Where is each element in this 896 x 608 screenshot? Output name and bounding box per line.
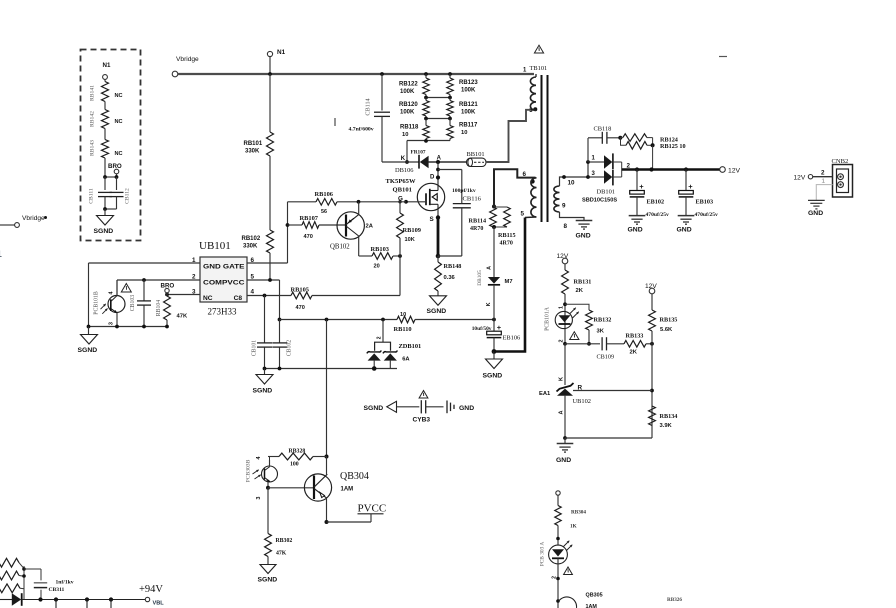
svg-text:RB326: RB326 bbox=[667, 597, 682, 603]
svg-text:330K: 330K bbox=[245, 149, 260, 155]
svg-text:CB118: CB118 bbox=[594, 126, 612, 133]
svg-text:CB112: CB112 bbox=[125, 188, 131, 204]
svg-text:RB131: RB131 bbox=[574, 279, 592, 286]
svg-text:BRO: BRO bbox=[108, 163, 122, 170]
svg-text:2K: 2K bbox=[576, 288, 584, 294]
svg-text:PCB303B: PCB303B bbox=[246, 459, 252, 482]
svg-text:CB111: CB111 bbox=[89, 188, 95, 204]
svg-text:N1: N1 bbox=[277, 49, 286, 56]
svg-text:CB103: CB103 bbox=[130, 295, 136, 312]
svg-text:K: K bbox=[559, 377, 565, 381]
svg-text:NC: NC bbox=[115, 93, 123, 99]
svg-text:6A: 6A bbox=[402, 357, 410, 363]
svg-text:+: + bbox=[639, 182, 644, 191]
svg-text:9: 9 bbox=[562, 203, 566, 210]
svg-text:3K: 3K bbox=[597, 329, 605, 335]
svg-text:330K: 330K bbox=[243, 244, 258, 250]
svg-text:CB114: CB114 bbox=[365, 98, 372, 115]
svg-text:2: 2 bbox=[552, 576, 558, 579]
svg-text:RB302: RB302 bbox=[276, 538, 293, 544]
svg-text:10K: 10K bbox=[405, 237, 415, 243]
svg-text:PCB101B: PCB101B bbox=[94, 291, 100, 315]
svg-text:QB102: QB102 bbox=[330, 244, 350, 251]
svg-text:20: 20 bbox=[374, 264, 380, 270]
svg-text:12V: 12V bbox=[794, 175, 806, 182]
svg-text:QB304: QB304 bbox=[340, 471, 369, 482]
svg-text:56: 56 bbox=[321, 209, 327, 215]
svg-text:CB109: CB109 bbox=[597, 354, 615, 361]
svg-text:1AM: 1AM bbox=[586, 604, 598, 608]
svg-text:1K: 1K bbox=[570, 524, 577, 530]
svg-text:DB105: DB105 bbox=[477, 270, 483, 286]
svg-text:SGND: SGND bbox=[427, 308, 447, 315]
svg-text:10: 10 bbox=[461, 130, 467, 136]
svg-text:C8: C8 bbox=[234, 295, 243, 302]
svg-text:TK5P65W: TK5P65W bbox=[386, 178, 416, 185]
svg-text:A: A bbox=[559, 411, 565, 415]
svg-text:1: 1 bbox=[559, 306, 565, 309]
svg-text:RB107: RB107 bbox=[300, 215, 319, 222]
svg-text:2K: 2K bbox=[630, 350, 638, 356]
svg-text:RB122: RB122 bbox=[399, 82, 418, 88]
svg-text:RB120: RB120 bbox=[399, 102, 418, 108]
svg-text:SGND: SGND bbox=[258, 577, 278, 584]
svg-text:10: 10 bbox=[402, 132, 408, 138]
svg-text:3: 3 bbox=[256, 497, 262, 500]
svg-text:273H33: 273H33 bbox=[208, 307, 237, 317]
svg-text:4R70: 4R70 bbox=[470, 226, 483, 232]
svg-text:SGND: SGND bbox=[78, 347, 98, 354]
svg-text:R: R bbox=[578, 385, 583, 392]
svg-text:Vbridge: Vbridge bbox=[22, 215, 45, 222]
svg-text:100K: 100K bbox=[400, 89, 415, 95]
svg-text:+: + bbox=[688, 182, 693, 191]
svg-text:100: 100 bbox=[290, 461, 299, 467]
svg-text:+94V: +94V bbox=[139, 584, 163, 595]
svg-text:RB141: RB141 bbox=[90, 85, 96, 101]
svg-text:CB311: CB311 bbox=[49, 587, 65, 593]
svg-text:RB114: RB114 bbox=[469, 218, 487, 225]
svg-text:470: 470 bbox=[304, 234, 313, 240]
svg-text:RB104: RB104 bbox=[156, 300, 162, 317]
svg-text:RB134: RB134 bbox=[660, 413, 678, 420]
svg-text:SGND: SGND bbox=[483, 373, 503, 380]
svg-text:PVCC: PVCC bbox=[358, 503, 387, 515]
svg-text:UB101: UB101 bbox=[199, 240, 231, 252]
svg-text:0.36: 0.36 bbox=[444, 275, 456, 281]
svg-text:A: A bbox=[487, 266, 493, 270]
svg-text:S: S bbox=[430, 216, 434, 223]
svg-text:47K: 47K bbox=[276, 551, 287, 557]
svg-text:12V: 12V bbox=[728, 168, 741, 175]
svg-text:RB101: RB101 bbox=[244, 141, 263, 147]
svg-text:EB106: EB106 bbox=[503, 335, 521, 342]
svg-text:ZDB101: ZDB101 bbox=[399, 343, 422, 350]
svg-text:COMPVCC: COMPVCC bbox=[203, 279, 245, 286]
svg-text:CB102: CB102 bbox=[287, 340, 293, 357]
svg-text:RB125 10: RB125 10 bbox=[660, 143, 686, 150]
svg-text:GND: GND bbox=[677, 227, 692, 234]
svg-text:100K: 100K bbox=[400, 110, 415, 116]
svg-text:N1: N1 bbox=[103, 62, 111, 69]
svg-text:FR107: FR107 bbox=[411, 150, 426, 156]
svg-text:DB106: DB106 bbox=[395, 167, 413, 174]
svg-text:4.7nf/600v: 4.7nf/600v bbox=[349, 127, 374, 133]
svg-text:PCB 303 A: PCB 303 A bbox=[540, 542, 546, 567]
svg-text:K: K bbox=[401, 156, 406, 162]
svg-text:UB102: UB102 bbox=[573, 398, 591, 405]
svg-text:RB148: RB148 bbox=[444, 263, 462, 270]
svg-text:K: K bbox=[486, 302, 492, 306]
svg-text:EA1: EA1 bbox=[539, 391, 551, 397]
svg-text:RB133: RB133 bbox=[626, 333, 644, 340]
svg-text:RB102: RB102 bbox=[242, 236, 261, 242]
svg-text:CYB3: CYB3 bbox=[413, 417, 431, 424]
svg-text:4R70: 4R70 bbox=[500, 241, 513, 247]
svg-text:RB304: RB304 bbox=[571, 510, 586, 516]
svg-text:GND: GND bbox=[628, 227, 643, 234]
svg-text:470: 470 bbox=[296, 305, 305, 311]
svg-text:3: 3 bbox=[109, 322, 115, 325]
svg-text:NC: NC bbox=[115, 151, 123, 157]
svg-text:2A: 2A bbox=[366, 224, 374, 230]
svg-text:470uf/25v: 470uf/25v bbox=[646, 212, 670, 218]
svg-text:1: 1 bbox=[0, 249, 2, 259]
svg-text:10: 10 bbox=[568, 180, 576, 187]
svg-text:RB132: RB132 bbox=[594, 317, 612, 324]
svg-text:RB142: RB142 bbox=[90, 111, 96, 127]
svg-text:RB106: RB106 bbox=[315, 191, 334, 198]
svg-text:1AM: 1AM bbox=[341, 487, 354, 493]
svg-text:8: 8 bbox=[564, 223, 568, 230]
svg-text:NC: NC bbox=[203, 295, 213, 302]
svg-text:EB103: EB103 bbox=[696, 199, 714, 206]
svg-text:BB101: BB101 bbox=[467, 151, 485, 158]
svg-text:RB110: RB110 bbox=[394, 326, 412, 333]
svg-text:RB143: RB143 bbox=[90, 140, 96, 156]
svg-text:SGND: SGND bbox=[364, 405, 384, 412]
svg-text:RB118: RB118 bbox=[400, 124, 419, 130]
svg-text:QB305: QB305 bbox=[586, 593, 603, 599]
svg-text:DB101: DB101 bbox=[597, 189, 615, 196]
svg-text:6: 6 bbox=[251, 257, 255, 264]
svg-text:RB117: RB117 bbox=[459, 123, 478, 129]
svg-text:SGND: SGND bbox=[94, 228, 114, 235]
svg-text:1: 1 bbox=[822, 178, 826, 185]
svg-text:470uf/25v: 470uf/25v bbox=[695, 212, 719, 218]
svg-text:TB101: TB101 bbox=[530, 65, 548, 72]
svg-text:RB109: RB109 bbox=[403, 227, 421, 234]
svg-text:NC: NC bbox=[115, 119, 123, 125]
svg-text:100K: 100K bbox=[461, 110, 476, 116]
svg-text:5: 5 bbox=[521, 211, 525, 218]
svg-text:2: 2 bbox=[559, 340, 565, 343]
svg-text:VBL: VBL bbox=[153, 601, 165, 607]
svg-text:RB123: RB123 bbox=[459, 80, 478, 86]
svg-text:4: 4 bbox=[251, 289, 255, 296]
svg-text:100K: 100K bbox=[461, 88, 476, 94]
svg-text:47K: 47K bbox=[177, 314, 188, 320]
svg-text:2: 2 bbox=[821, 170, 825, 177]
svg-text:SGND: SGND bbox=[253, 388, 273, 395]
svg-text:1nf/1kv: 1nf/1kv bbox=[56, 580, 74, 586]
svg-text:GND: GND bbox=[556, 457, 571, 464]
svg-text:GND: GND bbox=[808, 210, 823, 217]
svg-text:EB102: EB102 bbox=[647, 199, 665, 206]
svg-text:GND: GND bbox=[459, 405, 474, 412]
svg-text:RB328: RB328 bbox=[289, 448, 306, 454]
svg-text:GND: GND bbox=[576, 233, 591, 240]
svg-text:2: 2 bbox=[376, 336, 382, 339]
svg-text:PCB101A: PCB101A bbox=[545, 306, 551, 331]
svg-text:Vbridge: Vbridge bbox=[176, 56, 199, 63]
svg-text:SBD10C150S: SBD10C150S bbox=[582, 198, 617, 204]
svg-text:RB135: RB135 bbox=[660, 317, 678, 324]
svg-text:D: D bbox=[430, 175, 435, 181]
svg-text:6: 6 bbox=[523, 171, 527, 178]
svg-text:GND GATE: GND GATE bbox=[203, 263, 245, 270]
svg-text:CB101: CB101 bbox=[252, 340, 258, 357]
svg-text:M7: M7 bbox=[505, 279, 513, 285]
svg-text:QB101: QB101 bbox=[393, 186, 412, 193]
svg-text:RB121: RB121 bbox=[459, 102, 478, 108]
svg-text:5.6K: 5.6K bbox=[660, 327, 673, 333]
svg-text:RB103: RB103 bbox=[371, 246, 389, 253]
svg-text:RB115: RB115 bbox=[498, 232, 516, 239]
svg-text:100pf/1kv: 100pf/1kv bbox=[452, 188, 476, 194]
svg-text:3.9K: 3.9K bbox=[660, 423, 673, 429]
svg-text:CB116: CB116 bbox=[463, 196, 482, 203]
svg-text:RB105: RB105 bbox=[291, 286, 309, 293]
